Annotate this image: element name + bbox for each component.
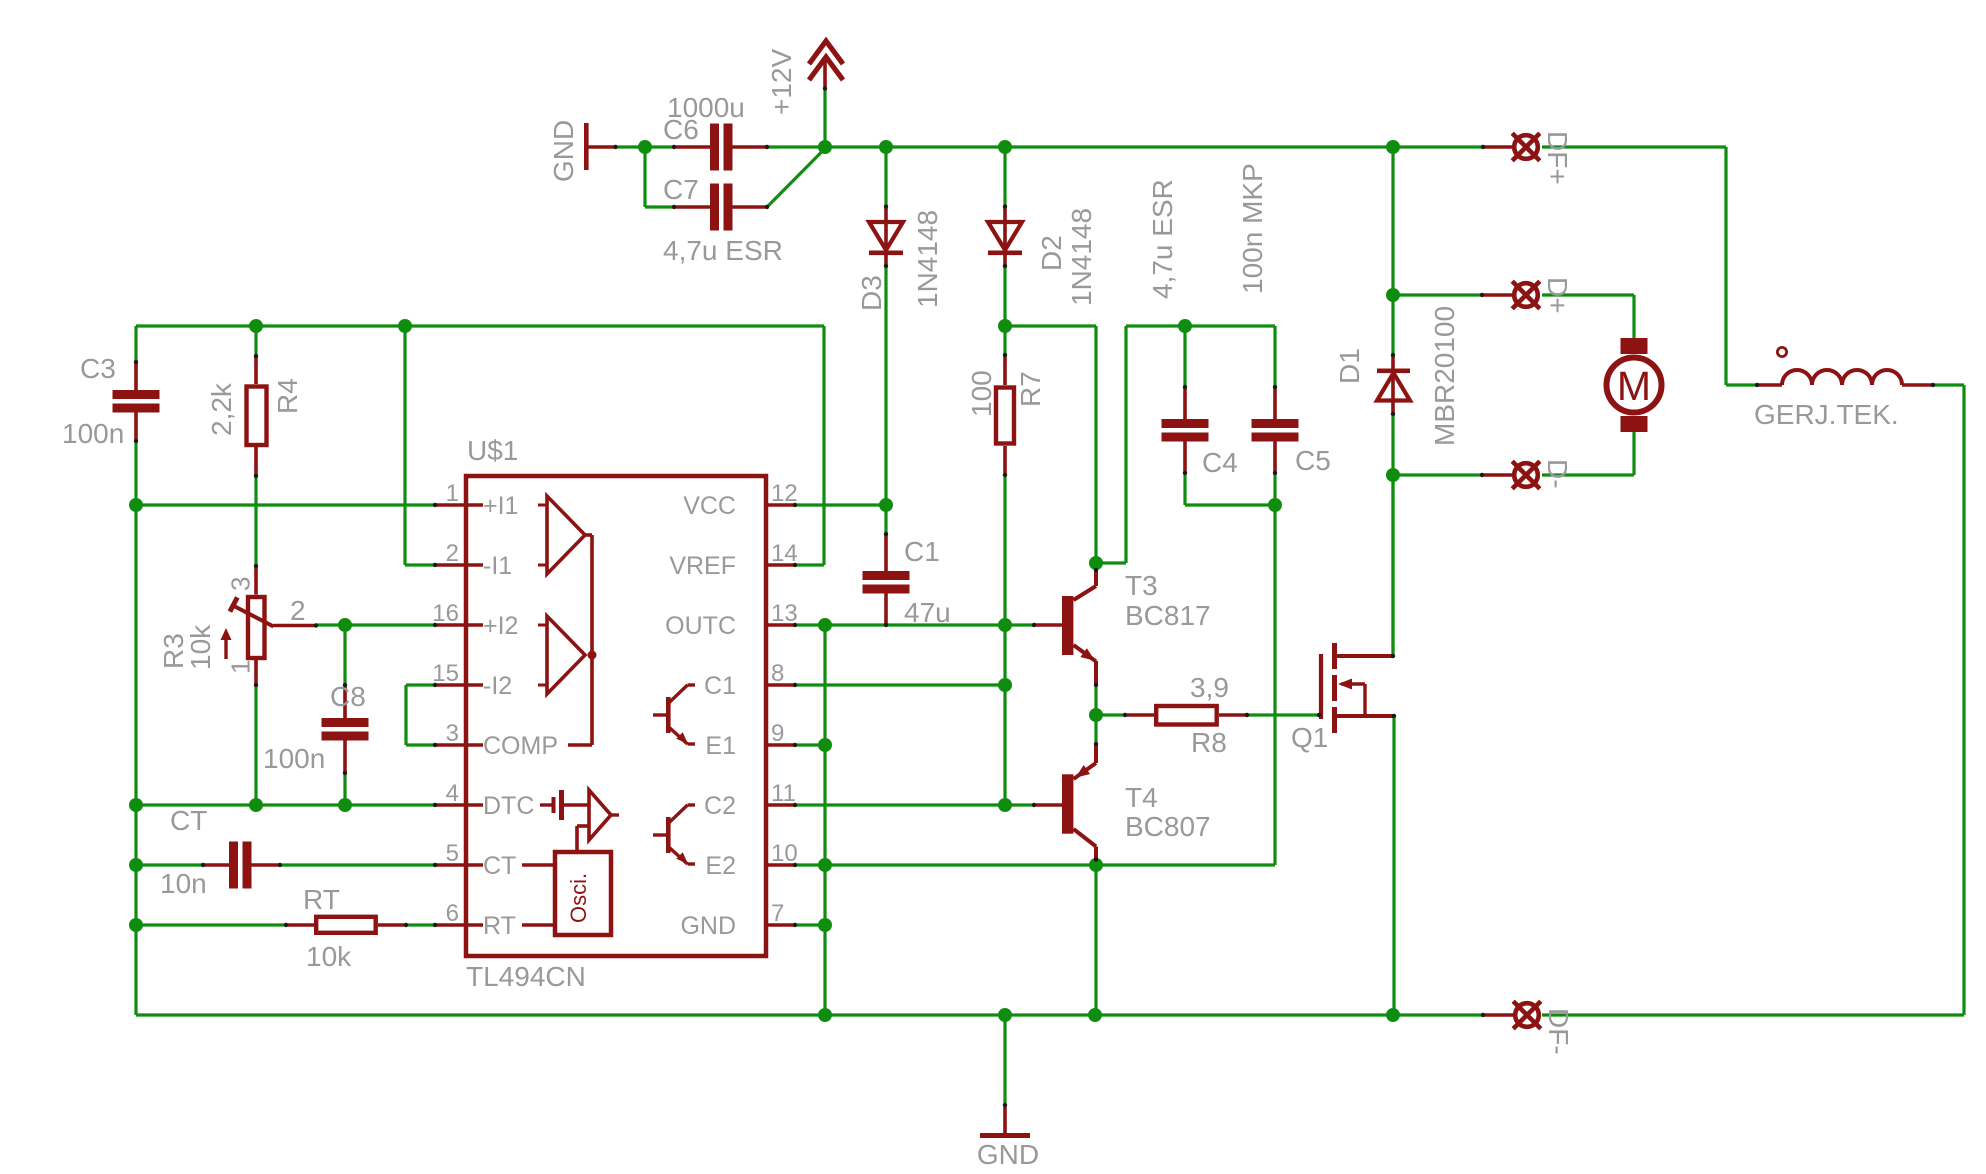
svg-text:TL494CN: TL494CN <box>466 961 586 992</box>
svg-text:100: 100 <box>966 370 997 417</box>
svg-text:C6: C6 <box>663 114 699 145</box>
svg-text:E1: E1 <box>705 732 736 760</box>
svg-text:16: 16 <box>432 600 459 627</box>
svg-text:4,7u ESR: 4,7u ESR <box>1147 179 1178 299</box>
svg-text:D+: D+ <box>1542 277 1573 314</box>
svg-text:+I1: +I1 <box>483 492 518 520</box>
svg-text:10k: 10k <box>185 624 216 670</box>
svg-text:CT: CT <box>483 852 516 880</box>
svg-text:10k: 10k <box>306 941 352 972</box>
svg-text:+12V: +12V <box>766 49 797 115</box>
svg-text:D-: D- <box>1542 459 1573 489</box>
svg-text:-I1: -I1 <box>483 552 512 580</box>
svg-text:8: 8 <box>771 660 784 687</box>
svg-text:3: 3 <box>446 720 459 747</box>
svg-text:GND: GND <box>680 912 736 940</box>
svg-text:5: 5 <box>446 840 459 867</box>
svg-text:R8: R8 <box>1191 727 1227 758</box>
svg-text:VCC: VCC <box>683 492 736 520</box>
svg-text:14: 14 <box>771 540 798 567</box>
svg-text:1: 1 <box>226 660 256 674</box>
svg-text:COMP: COMP <box>483 732 558 760</box>
svg-text:D1: D1 <box>1334 348 1365 384</box>
svg-text:M: M <box>1617 363 1651 409</box>
svg-text:10n: 10n <box>160 868 207 899</box>
svg-text:RT: RT <box>483 912 516 940</box>
svg-text:9: 9 <box>771 720 784 747</box>
svg-text:GND: GND <box>977 1139 1039 1170</box>
svg-text:C5: C5 <box>1295 445 1331 476</box>
svg-text:GERJ.TEK.: GERJ.TEK. <box>1754 399 1899 430</box>
svg-text:T3: T3 <box>1125 570 1158 601</box>
svg-text:DF-: DF- <box>1543 1008 1574 1055</box>
svg-text:GND: GND <box>548 120 579 182</box>
svg-text:4: 4 <box>446 780 459 807</box>
svg-text:C7: C7 <box>663 174 699 205</box>
svg-text:1N4148: 1N4148 <box>912 210 943 308</box>
svg-text:1: 1 <box>446 480 459 507</box>
svg-text:47u: 47u <box>904 597 951 628</box>
svg-text:VREF: VREF <box>669 552 736 580</box>
svg-text:7: 7 <box>771 900 784 927</box>
svg-text:Q1: Q1 <box>1291 722 1328 753</box>
svg-text:C1: C1 <box>904 536 940 567</box>
svg-text:U$1: U$1 <box>467 435 518 466</box>
svg-text:T4: T4 <box>1125 782 1158 813</box>
svg-text:MBR20100: MBR20100 <box>1429 306 1460 446</box>
svg-text:DTC: DTC <box>483 792 534 820</box>
svg-text:+I2: +I2 <box>483 612 518 640</box>
svg-text:Osci.: Osci. <box>566 873 591 923</box>
svg-text:13: 13 <box>771 600 798 627</box>
svg-text:100n: 100n <box>263 743 325 774</box>
svg-text:3,9: 3,9 <box>1190 672 1229 703</box>
svg-text:RT: RT <box>303 884 340 915</box>
svg-text:12: 12 <box>771 480 798 507</box>
svg-text:C2: C2 <box>704 792 736 820</box>
svg-text:11: 11 <box>771 780 796 807</box>
svg-text:3: 3 <box>226 577 256 591</box>
svg-text:C3: C3 <box>80 353 116 384</box>
svg-text:R7: R7 <box>1015 371 1046 407</box>
svg-text:C4: C4 <box>1202 447 1238 478</box>
svg-text:6: 6 <box>446 900 459 927</box>
svg-text:100n MKP: 100n MKP <box>1237 163 1268 294</box>
svg-text:15: 15 <box>432 660 459 687</box>
svg-text:2: 2 <box>446 540 459 567</box>
svg-text:C1: C1 <box>704 672 736 700</box>
svg-text:E2: E2 <box>705 852 736 880</box>
svg-text:100n: 100n <box>62 418 124 449</box>
svg-text:D2: D2 <box>1036 235 1067 271</box>
svg-text:10: 10 <box>771 840 798 867</box>
svg-text:2,2k: 2,2k <box>206 382 237 436</box>
svg-text:BC817: BC817 <box>1125 600 1211 631</box>
svg-text:4,7u ESR: 4,7u ESR <box>663 235 783 266</box>
svg-text:R4: R4 <box>272 378 303 414</box>
svg-text:1N4148: 1N4148 <box>1066 208 1097 306</box>
svg-text:-I2: -I2 <box>483 672 512 700</box>
svg-text:OUTC: OUTC <box>665 612 736 640</box>
svg-text:D3: D3 <box>856 275 887 311</box>
svg-text:CT: CT <box>170 805 207 836</box>
svg-text:DF+: DF+ <box>1542 131 1573 185</box>
svg-text:2: 2 <box>290 595 306 626</box>
svg-text:BC807: BC807 <box>1125 811 1211 842</box>
svg-text:C8: C8 <box>330 681 366 712</box>
